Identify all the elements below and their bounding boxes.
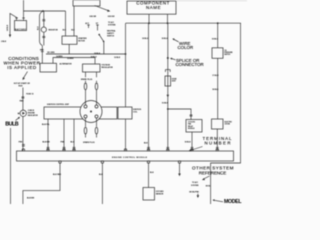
svg-text:BLK/WH: BLK/WH <box>43 142 51 144</box>
wire control unit leads to ECM <box>48 119 74 151</box>
connector on choke wire <box>216 148 219 150</box>
ECM bottom pin terminals <box>59 161 181 163</box>
svg-text:BK BL: BK BL <box>206 185 211 187</box>
svg-text:PRESSURE: PRESSURE <box>224 52 232 54</box>
wire battery cable down to starter <box>65 11 67 36</box>
svg-text:MOTOR: MOTOR <box>78 41 85 43</box>
wire resistor bypass left branch <box>40 11 44 46</box>
resistor R1 <box>41 27 46 32</box>
svg-text:FUSE 15: FUSE 15 <box>26 93 33 95</box>
svg-text:IGNITION CONTROL UNIT: IGNITION CONTROL UNIT <box>47 104 70 106</box>
node at bulb <box>18 113 20 115</box>
svg-text:18 BLK: 18 BLK <box>212 89 219 91</box>
svg-text:BLK/YEL: BLK/YEL <box>42 124 51 126</box>
diode assembly module <box>165 76 171 86</box>
oil pressure switch S2 <box>212 48 223 59</box>
svg-text:16 BLK: 16 BLK <box>114 57 121 59</box>
svg-text:IGN SW: IGN SW <box>108 16 115 18</box>
node resistor branch junction <box>42 10 44 12</box>
svg-text:SYSTEM: SYSTEM <box>191 185 199 187</box>
svg-text:BULB: BULB <box>5 121 19 127</box>
svg-text:RUN: RUN <box>19 86 24 88</box>
node mid bus to main vertical <box>125 53 127 55</box>
wire oil switch to choke <box>217 58 219 119</box>
connector above resistor <box>42 20 45 21</box>
wire ECM to A/C system reference <box>179 163 181 174</box>
svg-text:COLOR: COLOR <box>178 45 194 50</box>
wire relay to ECM <box>191 132 193 151</box>
splice S1 <box>167 57 169 59</box>
electric choke heater <box>212 119 224 129</box>
svg-text:BATTERY: BATTERY <box>15 28 27 31</box>
svg-text:IGN SW: IGN SW <box>90 16 97 18</box>
connectors on control unit leads <box>47 148 76 150</box>
svg-text:14 BLK: 14 BLK <box>6 24 9 31</box>
arrow bulb callout <box>16 118 20 121</box>
wire off page reference arrow <box>197 194 199 196</box>
node bus junction right lead <box>167 22 169 24</box>
arrow model callout <box>214 200 223 202</box>
svg-text:MODULE: MODULE <box>188 128 195 130</box>
wire resistor branch <box>42 11 44 63</box>
wire battery negative loop <box>10 14 18 37</box>
svg-text:14 BRN: 14 BRN <box>56 55 63 58</box>
bulb L1 check engine indicator <box>20 110 26 116</box>
connector on fuse wire <box>22 97 25 98</box>
arrow conditions callout <box>23 72 27 79</box>
svg-text:18 BLK: 18 BLK <box>94 53 101 55</box>
svg-text:16 BRN: 16 BRN <box>67 58 74 60</box>
connector below resistor <box>42 36 45 37</box>
node bus junction oil switch wire <box>217 22 219 24</box>
svg-text:18 BLU: 18 BLU <box>142 38 149 40</box>
wire ignition switch to starter <box>73 6 75 36</box>
svg-text:TO A/C: TO A/C <box>192 181 199 184</box>
svg-text:2 BLK: 2 BLK <box>1 41 7 43</box>
connector on alternator wire <box>41 51 44 53</box>
svg-text:18 BLU: 18 BLU <box>162 38 169 40</box>
ECM top pin terminals <box>22 149 218 151</box>
cooling fan relay module K1 <box>186 120 202 133</box>
wire top bus <box>126 22 242 24</box>
starter motor M1 <box>62 36 77 44</box>
connector half box on wire B <box>165 70 170 72</box>
wire B bus to ECM <box>167 23 169 151</box>
border right edge of diagram <box>211 23 241 204</box>
svg-text:BLK RED: BLK RED <box>53 174 62 176</box>
connector on bulb wire <box>22 145 25 147</box>
wire ECM ground down <box>101 163 103 204</box>
svg-text:MODEL: MODEL <box>224 199 242 204</box>
connector on relay branch <box>190 115 193 116</box>
svg-text:ACC: ACC <box>85 22 90 25</box>
connector on wire A <box>147 148 150 150</box>
oxygen sensor Z1 <box>143 188 155 201</box>
wire bulb to ECM <box>22 117 24 152</box>
ignition coil T1 <box>118 107 132 119</box>
wire branch to relay module <box>168 109 191 120</box>
spark plug P4 <box>95 127 98 133</box>
svg-text:16 BLK: 16 BLK <box>162 103 169 105</box>
connector on wire B lower <box>166 148 169 150</box>
connector on relay wire <box>191 148 194 150</box>
wire distributor tower leads <box>86 101 97 127</box>
svg-text:SWITCH: SWITCH <box>107 35 115 37</box>
spark plug P3 <box>84 127 87 133</box>
wire ECM ground lower left <box>23 163 60 204</box>
svg-text:DK BL/PNK: DK BL/PNK <box>189 192 199 194</box>
neutral safety switch S1 <box>98 28 104 54</box>
alternator G1 <box>40 63 57 72</box>
wire component leads to bus <box>149 14 168 23</box>
switch contacts ACC and ST <box>87 25 98 28</box>
svg-text:REFERENCE: REFERENCE <box>199 170 227 175</box>
wire starter ground lead <box>68 44 70 54</box>
wire battery to starter cable run <box>24 10 66 12</box>
wire choke to ECM <box>216 129 218 151</box>
svg-text:NAME: NAME <box>146 5 161 10</box>
svg-text:COOLING: COOLING <box>188 122 196 124</box>
wire mid bus <box>46 53 126 55</box>
node junction wire B to relay branch <box>167 108 169 110</box>
svg-text:18 BLU: 18 BLU <box>91 57 98 59</box>
wire ECM to oxygen sensor <box>148 163 150 188</box>
svg-text:ENGINE CONTROL MODULE: ENGINE CONTROL MODULE <box>112 157 148 159</box>
svg-text:ELECTRIC: ELECTRIC <box>225 122 233 124</box>
wire battery positive feed from top edge <box>23 0 25 18</box>
voltage regulator VR1 <box>83 64 101 72</box>
ignition switch lever arm <box>95 6 109 11</box>
wire A bus to ECM <box>148 23 150 151</box>
svg-text:CONNECTOR: CONNECTOR <box>176 62 204 67</box>
wire C bus to oil pressure switch <box>217 23 219 48</box>
border left edge of diagram <box>10 128 12 204</box>
node bus junction left lead <box>148 22 150 24</box>
ignition control unit U1 box <box>44 107 117 119</box>
svg-text:ALTERNATOR: ALTERNATOR <box>60 62 73 65</box>
svg-text:18 BLU: 18 BLU <box>212 38 219 40</box>
svg-text:SYSTEM: SYSTEM <box>108 25 116 27</box>
wire alternator to regulator <box>53 58 95 65</box>
wire main vertical trunk <box>125 23 127 151</box>
ECM engine control module U2 <box>17 151 234 161</box>
spark plug P2 <box>95 72 97 83</box>
svg-text:BLK/WH: BLK/WH <box>27 198 35 200</box>
svg-text:SPARK PLUG: SPARK PLUG <box>83 141 95 144</box>
wire fuse feed to bulb <box>22 88 24 111</box>
svg-text:SENSOR: SENSOR <box>156 193 164 195</box>
svg-text:IS APPLIED: IS APPLIED <box>7 65 37 70</box>
distributor D1 cap <box>80 101 102 123</box>
svg-text:CHOKE: CHOKE <box>225 124 230 126</box>
svg-text:INDICATOR: INDICATOR <box>28 114 39 117</box>
battery B1 <box>15 21 27 31</box>
svg-text:17 BLU: 17 BLU <box>212 75 219 77</box>
ground arrow left <box>9 35 11 38</box>
svg-text:DIODE: DIODE <box>172 79 177 81</box>
arrow other system callout <box>204 176 210 179</box>
svg-text:REGULATOR: REGULATOR <box>102 66 114 69</box>
svg-text:OIL: OIL <box>224 50 227 52</box>
svg-text:SPARK PLUG: SPARK PLUG <box>81 78 93 81</box>
svg-text:RESISTOR: RESISTOR <box>49 30 59 32</box>
arrow terminal number callout <box>190 147 203 151</box>
component name box <box>127 1 176 14</box>
spark plug P1 <box>84 72 86 83</box>
svg-text:DK GRN: DK GRN <box>47 52 55 54</box>
arrow splice callout <box>172 59 176 60</box>
svg-text:SWITCH: SWITCH <box>224 54 230 56</box>
arrow wire color callout <box>174 39 179 42</box>
ignition switch SW1 box <box>73 0 100 6</box>
page edge top right <box>176 0 247 2</box>
connector arrow on wire B <box>167 95 170 98</box>
svg-text:18 BLK: 18 BLK <box>185 142 192 144</box>
